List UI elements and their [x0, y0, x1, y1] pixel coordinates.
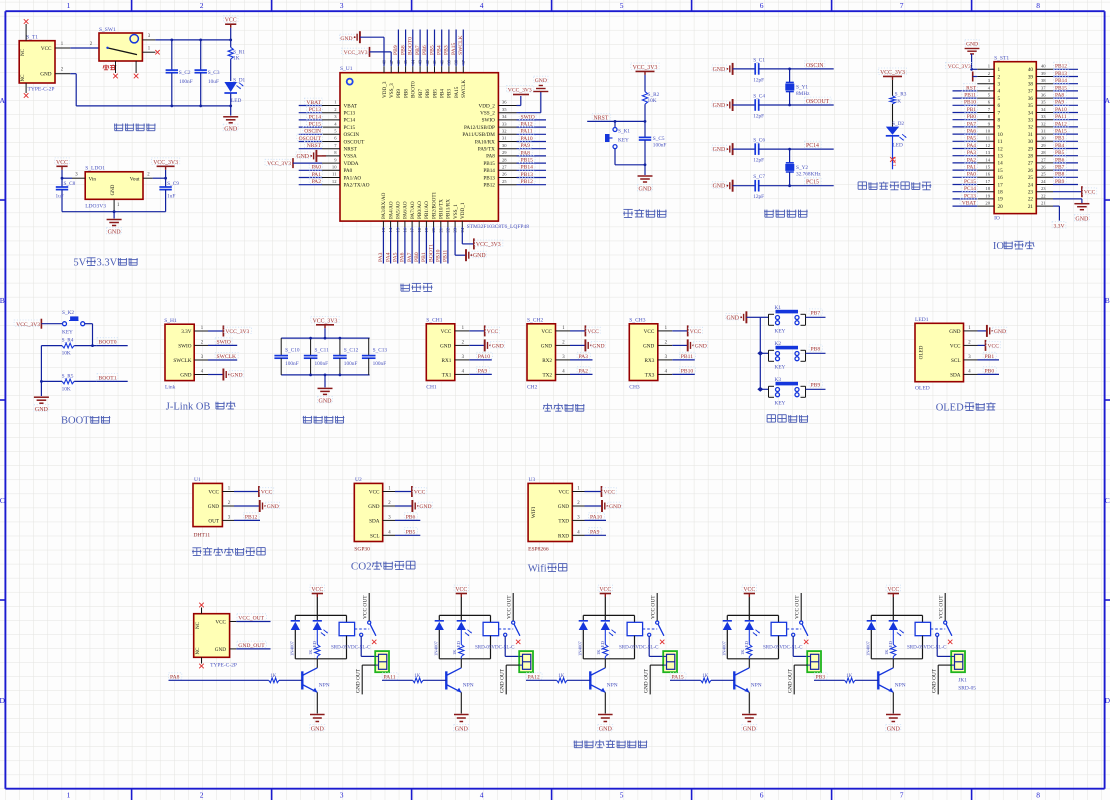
svg-text:PB10: PB10	[964, 100, 976, 106]
svg-text:3.3V: 3.3V	[1053, 224, 1064, 230]
svg-text:11: 11	[986, 136, 991, 141]
svg-text:PB8: PB8	[811, 347, 821, 353]
svg-text:OLED: OLED	[936, 403, 964, 414]
svg-text:PA9: PA9	[1055, 100, 1064, 106]
svg-text:S_C1: S_C1	[753, 57, 765, 63]
svg-text:1K: 1K	[702, 674, 709, 679]
svg-text:VCC_3V3: VCC_3V3	[344, 50, 368, 56]
svg-text:1N4007: 1N4007	[721, 640, 726, 656]
svg-text:SCL: SCL	[370, 533, 380, 539]
svg-text:PA3: PA3	[967, 150, 976, 156]
svg-text:PC14: PC14	[806, 143, 819, 149]
svg-text:35: 35	[1028, 103, 1034, 109]
svg-text:PB0: PB0	[985, 369, 995, 375]
svg-text:100nF: 100nF	[285, 361, 299, 367]
svg-text:U1: U1	[194, 477, 201, 483]
svg-text:S_Y2: S_Y2	[796, 165, 808, 171]
svg-text:PA3: PA3	[378, 252, 384, 262]
svg-text:33: 33	[1041, 114, 1046, 119]
svg-text:TYPE-C-2P: TYPE-C-2P	[28, 86, 55, 92]
svg-text:GND: GND	[1075, 217, 1089, 223]
svg-text:S_K1: S_K1	[618, 129, 630, 135]
svg-text:PC13: PC13	[344, 111, 356, 117]
svg-text:PB5: PB5	[432, 89, 438, 98]
svg-text:PB0: PB0	[967, 114, 977, 120]
svg-text:39: 39	[1041, 71, 1046, 76]
svg-text:A: A	[1105, 96, 1110, 105]
svg-text:VCC OUT: VCC OUT	[651, 595, 657, 619]
svg-text:1N4007: 1N4007	[865, 640, 870, 656]
svg-text:SRD-05VDC-SL-C: SRD-05VDC-SL-C	[763, 646, 803, 651]
svg-text:GND: GND	[340, 36, 352, 42]
svg-text:NPN: NPN	[895, 683, 906, 689]
svg-text:GND: GND	[230, 373, 242, 379]
svg-text:PA12/USB/DP: PA12/USB/DP	[464, 125, 495, 131]
svg-text:35: 35	[1041, 100, 1046, 105]
svg-text:29: 29	[502, 150, 507, 155]
svg-text:22: 22	[1028, 197, 1034, 203]
svg-text:8: 8	[1036, 1, 1040, 10]
svg-text:GND: GND	[473, 253, 486, 259]
svg-text:PB0/AO: PB0/AO	[417, 201, 423, 219]
svg-text:GND OUT: GND OUT	[644, 668, 650, 693]
svg-text:GND OUT: GND OUT	[500, 668, 506, 693]
svg-text:21: 21	[1041, 201, 1046, 206]
svg-text:PB7: PB7	[811, 311, 821, 317]
svg-text:VCC: VCC	[644, 329, 655, 335]
svg-text:CH3: CH3	[629, 384, 640, 390]
svg-text:S_U1: S_U1	[340, 66, 353, 72]
svg-text:28: 28	[502, 157, 507, 162]
svg-text:VSS_1: VSS_1	[453, 204, 459, 219]
svg-text:3: 3	[340, 1, 344, 10]
svg-text:10: 10	[332, 165, 337, 170]
svg-text:PB13: PB13	[483, 175, 495, 181]
svg-text:5: 5	[620, 791, 624, 800]
svg-text:BOOT0: BOOT0	[408, 37, 414, 55]
svg-text:18: 18	[998, 190, 1004, 196]
svg-text:GND: GND	[726, 315, 739, 321]
svg-text:PB6: PB6	[1055, 157, 1065, 163]
svg-text:PB4: PB4	[440, 89, 446, 98]
svg-text:PA11: PA11	[384, 675, 396, 681]
svg-text:4: 4	[480, 791, 484, 800]
svg-text:GND: GND	[639, 187, 653, 193]
svg-text:PB12: PB12	[521, 179, 534, 185]
svg-text:D: D	[1105, 696, 1110, 705]
svg-text:S_C6: S_C6	[753, 138, 765, 144]
svg-text:PC15: PC15	[344, 125, 356, 131]
svg-text:PA15: PA15	[451, 43, 457, 55]
svg-text:12pF: 12pF	[753, 194, 764, 200]
svg-text:PA12: PA12	[528, 675, 540, 681]
svg-text:38: 38	[1041, 78, 1046, 83]
svg-text:27: 27	[502, 165, 507, 170]
svg-text:KEY: KEY	[775, 365, 786, 371]
svg-text:KEY: KEY	[62, 330, 73, 336]
svg-text:PA4: PA4	[967, 143, 976, 149]
svg-text:23: 23	[1041, 186, 1046, 191]
svg-text:SRD-05VDC-SL-C: SRD-05VDC-SL-C	[331, 646, 371, 651]
svg-text:7: 7	[900, 791, 904, 800]
svg-text:S_C2: S_C2	[179, 70, 191, 76]
svg-text:100nF: 100nF	[315, 361, 329, 367]
svg-text:10: 10	[985, 129, 990, 134]
svg-text:PB6: PB6	[425, 89, 431, 98]
svg-text:VCC_OUT: VCC_OUT	[238, 616, 264, 622]
svg-text:S_K2: S_K2	[62, 310, 74, 316]
svg-text:1K: 1K	[270, 674, 277, 679]
svg-text:VCC: VCC	[988, 343, 1000, 349]
svg-text:PB4: PB4	[1055, 143, 1065, 149]
svg-text:GND: GND	[949, 329, 960, 335]
svg-text:PA7: PA7	[967, 121, 976, 127]
svg-text:C: C	[1105, 496, 1110, 505]
svg-text:16: 16	[998, 175, 1004, 181]
svg-text:34: 34	[1028, 110, 1034, 116]
svg-text:2: 2	[200, 791, 204, 800]
svg-text:GND OUT: GND OUT	[356, 668, 362, 693]
svg-text:6: 6	[760, 1, 764, 10]
svg-text:SWCLK: SWCLK	[173, 358, 191, 364]
svg-text:14: 14	[985, 157, 990, 162]
svg-text:SDA: SDA	[950, 372, 961, 378]
svg-text:TXD: TXD	[558, 518, 569, 524]
svg-text:SWCLK: SWCLK	[458, 35, 464, 55]
svg-text:12pF: 12pF	[753, 114, 764, 120]
svg-text:NRST: NRST	[594, 115, 609, 121]
svg-text:A: A	[0, 96, 5, 105]
svg-text:12pF: 12pF	[753, 77, 764, 83]
svg-text:CH1: CH1	[426, 384, 437, 390]
svg-text:PC13: PC13	[964, 193, 976, 199]
svg-text:SDA: SDA	[369, 518, 380, 524]
svg-text:6: 6	[760, 791, 764, 800]
svg-text:34: 34	[1041, 107, 1046, 112]
svg-text:PB11: PB11	[681, 354, 693, 360]
svg-text:D: D	[0, 696, 5, 705]
svg-text:100nF: 100nF	[344, 361, 358, 367]
svg-text:VCC OUT: VCC OUT	[939, 595, 945, 619]
svg-text:VCC: VCC	[587, 329, 599, 335]
svg-text:BOOT1: BOOT1	[99, 375, 117, 381]
svg-text:S_CH3: S_CH3	[629, 317, 645, 323]
svg-text:VDD_2: VDD_2	[478, 103, 495, 109]
svg-text:GND: GND	[319, 398, 333, 404]
svg-text:GND: GND	[180, 373, 191, 379]
svg-text:PB3: PB3	[1055, 136, 1065, 142]
svg-text:9: 9	[998, 125, 1001, 131]
svg-text:1K: 1K	[895, 99, 902, 105]
svg-text:31: 31	[1041, 129, 1046, 134]
svg-text:PB2/BOOT1: PB2/BOOT1	[431, 191, 437, 219]
svg-text:VCC: VCC	[41, 46, 52, 52]
svg-text:VCC: VCC	[690, 329, 702, 335]
svg-text:VDD_1: VDD_1	[460, 202, 466, 219]
svg-text:36: 36	[1041, 93, 1046, 98]
svg-text:RXD: RXD	[558, 533, 569, 539]
svg-text:1K: 1K	[884, 649, 889, 655]
svg-text:VBAT: VBAT	[962, 201, 977, 207]
svg-text:14: 14	[998, 161, 1004, 167]
svg-text:NC: NC	[196, 647, 201, 655]
svg-text:VCC: VCC	[441, 329, 452, 335]
svg-text:SRD-05: SRD-05	[958, 686, 976, 692]
svg-text:S_C8: S_C8	[64, 181, 76, 187]
svg-text:VCC_3V3: VCC_3V3	[508, 88, 532, 94]
svg-text:12: 12	[332, 179, 337, 184]
svg-text:BOOT0: BOOT0	[411, 81, 417, 98]
svg-text:VCC: VCC	[1084, 190, 1096, 196]
svg-text:SWCLK: SWCLK	[461, 80, 467, 98]
svg-text:PA15: PA15	[1055, 129, 1067, 135]
svg-text:KEY: KEY	[775, 329, 786, 335]
svg-text:OLED: OLED	[915, 386, 930, 392]
svg-text:GND: GND	[966, 42, 978, 48]
svg-text:S_R4: S_R4	[62, 338, 74, 344]
svg-text:28: 28	[1041, 150, 1046, 155]
svg-text:1uF: 1uF	[167, 194, 175, 200]
svg-text:S_C5: S_C5	[653, 136, 665, 142]
svg-text:VCC: VCC	[261, 490, 273, 496]
svg-text:U2: U2	[355, 477, 362, 483]
svg-text:1K: 1K	[596, 649, 601, 655]
svg-text:24: 24	[1041, 179, 1046, 184]
svg-text:PA5/AO: PA5/AO	[396, 201, 402, 219]
svg-text:PB9: PB9	[393, 45, 399, 55]
svg-text:OSCOUT: OSCOUT	[806, 99, 830, 105]
svg-text:11: 11	[998, 139, 1003, 145]
svg-text:PA8: PA8	[170, 675, 180, 681]
svg-text:15: 15	[998, 168, 1004, 174]
svg-text:1K: 1K	[452, 649, 457, 655]
svg-text:NPN: NPN	[319, 683, 330, 689]
svg-text:8: 8	[998, 118, 1001, 124]
svg-text:GND_OUT: GND_OUT	[238, 643, 265, 649]
svg-text:TYPE-C-2P: TYPE-C-2P	[210, 663, 237, 669]
svg-text:B: B	[1105, 296, 1110, 305]
svg-text:PB12: PB12	[245, 515, 258, 521]
svg-text:PA3/RX/AO: PA3/RX/AO	[381, 192, 387, 219]
svg-text:11: 11	[332, 172, 337, 177]
svg-text:100nF: 100nF	[179, 79, 193, 85]
svg-text:1: 1	[67, 791, 71, 800]
svg-text:VCC: VCC	[455, 587, 467, 593]
svg-text:BOOT1: BOOT1	[428, 244, 434, 262]
svg-text:25: 25	[1041, 172, 1046, 177]
svg-text:PA9: PA9	[478, 369, 488, 375]
svg-text:PA8: PA8	[486, 154, 495, 160]
svg-text:37: 37	[1041, 85, 1046, 90]
svg-text:35: 35	[502, 107, 507, 112]
svg-text:PB4: PB4	[437, 45, 443, 55]
svg-text:36: 36	[502, 100, 507, 105]
svg-text:S_LDO1: S_LDO1	[85, 166, 105, 172]
svg-text:LED1: LED1	[892, 156, 897, 166]
svg-text:VCC_3V3: VCC_3V3	[153, 160, 178, 166]
svg-text:CO2: CO2	[351, 561, 372, 573]
svg-text:GND: GND	[994, 329, 1006, 335]
svg-text:OSCIN: OSCIN	[344, 132, 360, 138]
svg-text:2: 2	[998, 74, 1001, 80]
svg-text:GND: GND	[599, 727, 613, 733]
svg-text:1N4007: 1N4007	[577, 640, 582, 656]
svg-text:S_C11: S_C11	[315, 348, 330, 354]
svg-text:PA11: PA11	[1055, 114, 1067, 120]
svg-text:29: 29	[1041, 143, 1046, 148]
svg-text:VCC: VCC	[369, 490, 380, 496]
svg-text:5V: 5V	[73, 258, 86, 269]
svg-text:32: 32	[502, 129, 507, 134]
svg-text:PB3: PB3	[447, 89, 453, 98]
svg-text:GND: GND	[643, 343, 654, 349]
svg-text:VCC OUT: VCC OUT	[795, 595, 801, 619]
svg-text:B: B	[0, 296, 5, 305]
svg-text:33: 33	[502, 121, 507, 126]
svg-text:PA15: PA15	[454, 86, 460, 98]
svg-text:PA6: PA6	[967, 129, 976, 135]
svg-text:S_D1: S_D1	[233, 78, 245, 84]
svg-text:PB9: PB9	[811, 383, 821, 389]
svg-text:PB11: PB11	[443, 250, 449, 262]
svg-text:5: 5	[620, 1, 624, 10]
svg-text:S_SW1: S_SW1	[99, 27, 116, 33]
svg-text:GND: GND	[368, 504, 379, 510]
svg-text:PB5: PB5	[429, 45, 435, 55]
svg-text:1K: 1K	[308, 649, 313, 655]
svg-text:GND: GND	[419, 504, 431, 510]
svg-text:PB10: PB10	[436, 249, 442, 262]
svg-text:SGP30: SGP30	[354, 547, 370, 553]
svg-text:VBAT: VBAT	[306, 100, 321, 106]
svg-text:26: 26	[1041, 165, 1046, 170]
svg-text:1: 1	[998, 67, 1001, 73]
svg-text:1N4007: 1N4007	[289, 640, 294, 656]
svg-text:GND: GND	[541, 343, 552, 349]
svg-text:6: 6	[998, 103, 1001, 109]
svg-text:26: 26	[502, 172, 507, 177]
svg-text:VCC_3V3: VCC_3V3	[880, 70, 905, 76]
svg-text:GND: GND	[558, 504, 569, 510]
svg-text:RX1: RX1	[441, 358, 451, 364]
svg-text:36: 36	[1028, 96, 1034, 102]
svg-text:NC: NC	[21, 48, 26, 56]
svg-text:30: 30	[1041, 136, 1046, 141]
svg-text:PA7: PA7	[407, 252, 413, 262]
svg-text:VCC_3V3: VCC_3V3	[476, 242, 501, 248]
svg-text:12pF: 12pF	[753, 158, 764, 164]
svg-text:GND: GND	[35, 407, 49, 413]
svg-text:19: 19	[985, 193, 990, 198]
svg-text:CH2: CH2	[527, 384, 538, 390]
svg-text:TX3: TX3	[645, 372, 655, 378]
svg-text:GND: GND	[267, 504, 279, 510]
svg-text:Wifi: Wifi	[528, 564, 547, 575]
svg-text:4: 4	[480, 1, 484, 10]
svg-text:PA9: PA9	[590, 530, 600, 536]
svg-text:C: C	[0, 496, 5, 505]
svg-text:VDDA: VDDA	[344, 161, 359, 167]
svg-text:VCC_3V3: VCC_3V3	[313, 318, 338, 324]
svg-text:VCC: VCC	[950, 343, 961, 349]
svg-text:GND: GND	[224, 126, 238, 132]
svg-text:S_C12: S_C12	[344, 348, 359, 354]
svg-text:13: 13	[985, 150, 990, 155]
svg-text:PA5: PA5	[393, 252, 399, 262]
svg-text:PA10: PA10	[478, 354, 490, 360]
svg-text:SWIO: SWIO	[217, 340, 231, 346]
svg-text:GND: GND	[887, 727, 901, 733]
svg-text:27: 27	[1041, 157, 1046, 162]
svg-text:PA6/AO: PA6/AO	[403, 201, 409, 219]
svg-text:15: 15	[985, 165, 990, 170]
svg-text:NPN: NPN	[751, 683, 762, 689]
svg-text:12: 12	[998, 146, 1004, 152]
svg-text:LED: LED	[231, 98, 241, 104]
svg-text:NRST: NRST	[307, 143, 322, 149]
svg-text:PB9: PB9	[1055, 179, 1065, 185]
svg-text:PB7: PB7	[1055, 165, 1065, 171]
svg-text:RX3: RX3	[644, 358, 654, 364]
svg-text:GND: GND	[455, 727, 469, 733]
svg-text:PB12: PB12	[1055, 64, 1067, 70]
svg-text:27: 27	[1028, 161, 1034, 167]
svg-text:3: 3	[340, 791, 344, 800]
svg-text:Vout: Vout	[130, 176, 140, 182]
svg-text:PA10: PA10	[590, 515, 602, 521]
svg-text:1K: 1K	[846, 674, 853, 679]
svg-text:PB7: PB7	[415, 45, 421, 55]
svg-text:PA2: PA2	[312, 179, 322, 185]
svg-text:100nF: 100nF	[653, 143, 667, 149]
svg-text:S_R5: S_R5	[62, 374, 74, 380]
svg-text:1K: 1K	[558, 674, 565, 679]
svg-text:Link: Link	[165, 385, 176, 391]
svg-text:GND: GND	[743, 727, 757, 733]
svg-text:PB10: PB10	[681, 369, 694, 375]
svg-text:U3: U3	[529, 477, 536, 483]
svg-text:VCC OUT: VCC OUT	[507, 595, 513, 619]
svg-text:18: 18	[985, 186, 990, 191]
svg-text:S_CH2: S_CH2	[527, 317, 543, 323]
svg-text:PB3: PB3	[444, 45, 450, 55]
svg-text:3.3V: 3.3V	[97, 258, 118, 269]
svg-text:NC: NC	[21, 74, 26, 82]
svg-text:PB12: PB12	[483, 183, 495, 189]
svg-text:PB5: PB5	[406, 530, 416, 536]
svg-text:VBAT: VBAT	[344, 103, 358, 109]
svg-text:VCC: VCC	[56, 160, 68, 166]
svg-text:PB6: PB6	[422, 45, 428, 55]
svg-text:GND: GND	[695, 343, 707, 349]
svg-text:PA10: PA10	[1055, 107, 1067, 113]
svg-text:13: 13	[998, 154, 1004, 160]
svg-text:S_T1: S_T1	[26, 35, 38, 41]
svg-text:VSSA: VSSA	[344, 154, 358, 160]
svg-text:GND OUT: GND OUT	[788, 668, 794, 693]
svg-text:PB3: PB3	[816, 675, 826, 681]
svg-text:PC15: PC15	[806, 180, 819, 186]
svg-text:VCC: VCC	[311, 587, 323, 593]
svg-text:39: 39	[1028, 74, 1034, 80]
svg-text:GND: GND	[713, 103, 726, 109]
svg-text:NPN: NPN	[607, 683, 618, 689]
svg-text:S_D2: S_D2	[892, 121, 904, 127]
svg-text:S_C13: S_C13	[373, 348, 388, 354]
svg-text:PA12: PA12	[1055, 121, 1067, 127]
svg-text:32: 32	[1028, 125, 1034, 131]
svg-text:PA8: PA8	[1055, 93, 1064, 99]
